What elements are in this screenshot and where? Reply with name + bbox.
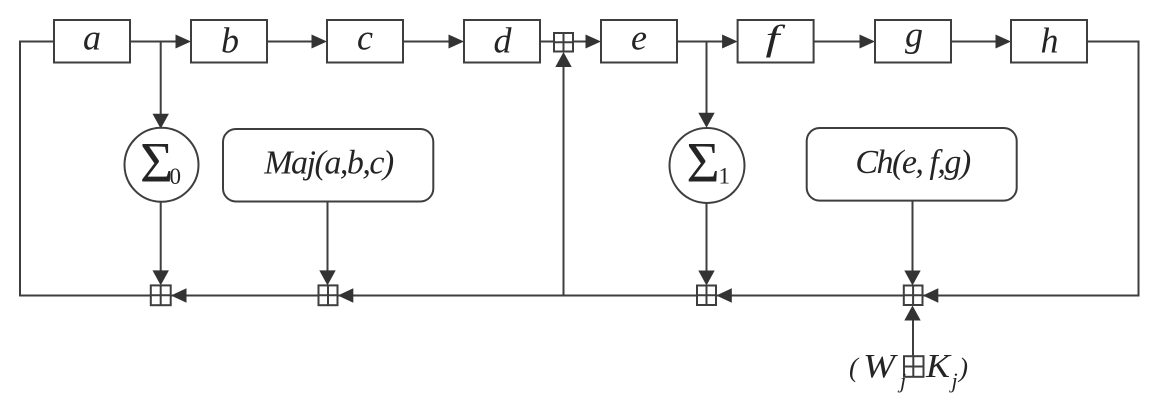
svg-text:1: 1 (719, 164, 731, 189)
Maj function box (223, 129, 433, 202)
svg-text:j: j (897, 368, 906, 393)
adder X4 boxed-plus below Ch (904, 286, 923, 306)
wire g to h (951, 41, 997, 43)
Sigma0 circle (125, 128, 199, 202)
arrowhead down into Sigma0 (153, 114, 169, 129)
wire f to g (814, 41, 861, 43)
wire bottom bus adder X3 to adder X4 (716, 295, 904, 297)
register e (601, 20, 677, 63)
svg-text:a: a (83, 18, 101, 58)
svg-text:(: ( (849, 353, 860, 383)
svg-text:): ) (957, 353, 968, 383)
arrowhead left into adder X4 from bus (923, 288, 939, 302)
WjKj label (849, 348, 968, 393)
wire branch e down to Sigma1 (706, 42, 708, 114)
wire Sigma0 output down to adder X1 (160, 202, 162, 272)
Sigma1 circle (670, 128, 745, 203)
svg-text:K: K (925, 348, 953, 385)
svg-text:b: b (221, 21, 239, 61)
wire c to d (403, 41, 450, 43)
adder X2 boxed-plus below Maj (319, 285, 338, 305)
arrowhead down into adder X4 (904, 271, 920, 286)
arrowhead down into adder X2 (319, 270, 335, 285)
arrowhead into h (996, 35, 1012, 49)
register c (327, 20, 403, 63)
arrowhead into e (586, 35, 602, 49)
svg-text:0: 0 (170, 164, 182, 189)
svg-text:h: h (1041, 21, 1059, 61)
wire bottom bus adder X1 to adder X2 (171, 295, 319, 297)
wire e to f with branch junction (677, 41, 723, 43)
wire adder to e (573, 41, 587, 43)
arrowhead up into adder X4 from WjKj (904, 306, 920, 321)
wire bottom bus left segment (19, 295, 151, 297)
arrowhead into c (312, 35, 328, 49)
wire WjKj up into adder X4 (912, 320, 914, 357)
arrowhead into g (860, 35, 876, 49)
wire Ch output down to adder X4 (912, 201, 914, 272)
svg-text:Σ: Σ (687, 132, 720, 195)
arrowhead down into adder X3 (698, 271, 714, 286)
Sigma0 symbol (140, 132, 181, 195)
arrowhead left into adder X3 from bus (716, 288, 732, 302)
svg-text:c: c (357, 18, 373, 58)
svg-text:d: d (494, 21, 513, 61)
arrowhead into f (722, 35, 738, 49)
arrowhead left into adder X1 from bus (171, 288, 187, 302)
wire h to right vertical (1087, 41, 1139, 43)
register a (54, 20, 130, 63)
arrowhead left into adder X2 from bus (338, 288, 354, 302)
svg-text:Ch(e, f,g): Ch(e, f,g) (855, 144, 971, 181)
small adder boxed-plus in WjKj label (904, 356, 924, 377)
arrowhead into b (176, 35, 192, 49)
arrowhead into d (449, 35, 465, 49)
wire bottom bus adder X4 to right vertical (923, 295, 1140, 297)
arrowhead down into Sigma1 (698, 113, 714, 128)
wire Sigma1 output down to adder X3 (706, 203, 708, 272)
svg-text:Maj(a,b,c): Maj(a,b,c) (263, 145, 394, 182)
adder boxed-plus between d and e (554, 33, 573, 52)
arrowhead up into adder between d and e (555, 52, 571, 67)
register f (738, 20, 814, 63)
register h (1011, 20, 1087, 63)
svg-text:e: e (631, 18, 647, 58)
register g (875, 20, 951, 63)
svg-text:g: g (905, 15, 923, 55)
wire branch a down to Sigma0 (160, 42, 162, 115)
register d (464, 20, 540, 63)
adder X1 boxed-plus below Sigma0 (151, 285, 171, 305)
wire d to adder (540, 41, 554, 43)
wire bottom bus adder X2 to adder X3 (338, 295, 698, 297)
Ch function box (807, 128, 1017, 201)
Sigma1 symbol (687, 132, 731, 195)
adder X3 boxed-plus below Sigma1 (697, 286, 716, 306)
register b (191, 20, 267, 63)
wire b to c (267, 41, 313, 43)
svg-text:Σ: Σ (140, 132, 173, 195)
svg-text:W: W (863, 348, 898, 385)
wire right feedback vertical (1138, 41, 1140, 296)
wire left feedback vertical (19, 42, 21, 296)
wire T1 up from bottom bus to adder between d and e (563, 67, 565, 296)
arrowhead down into adder X1 (153, 270, 169, 285)
wire a to b with branch junction (130, 41, 177, 43)
wire top into register a (19, 41, 54, 43)
wire Maj output down to adder X2 (327, 202, 329, 272)
